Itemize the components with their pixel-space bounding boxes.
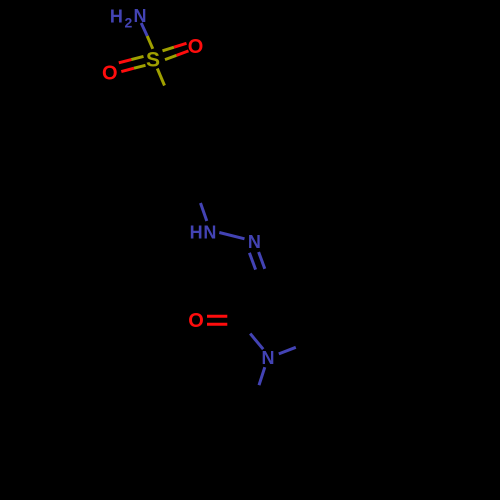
bond N-CH substituent (half blue stub) xyxy=(259,367,265,385)
svg-text:H: H xyxy=(190,223,203,243)
bond N-C7a ring (half blue stub) xyxy=(279,347,296,354)
svg-text:N: N xyxy=(262,348,275,368)
svg-text:N: N xyxy=(248,232,261,252)
svg-text:H: H xyxy=(110,6,123,26)
bond HN-N (N-N single bond) xyxy=(219,233,244,239)
bond N=C (double bond half stubs) xyxy=(249,252,264,270)
bond S=O upper-right (double bond) xyxy=(163,43,189,59)
atom label N (sulfonamide NH2) xyxy=(110,6,147,31)
bond S-C aryl (half sulfur stub) xyxy=(157,69,164,86)
svg-text:O: O xyxy=(102,62,118,84)
bond S=O lower-left (double bond) xyxy=(119,56,146,71)
bond C=O (double bond half red) xyxy=(207,316,227,324)
svg-text:O: O xyxy=(188,310,204,332)
svg-text:O: O xyxy=(188,36,204,58)
bond N-S (half blue, half sulfur) xyxy=(141,23,153,49)
svg-text:2: 2 xyxy=(125,15,133,31)
bond N-C2 ring (half blue stub) xyxy=(250,334,263,350)
atom label HN (hydrazone NH) xyxy=(190,223,217,243)
bond C aryl-NH (half blue stub) xyxy=(201,203,207,221)
svg-text:N: N xyxy=(203,223,216,243)
svg-text:N: N xyxy=(134,6,147,26)
svg-text:S: S xyxy=(146,48,160,71)
